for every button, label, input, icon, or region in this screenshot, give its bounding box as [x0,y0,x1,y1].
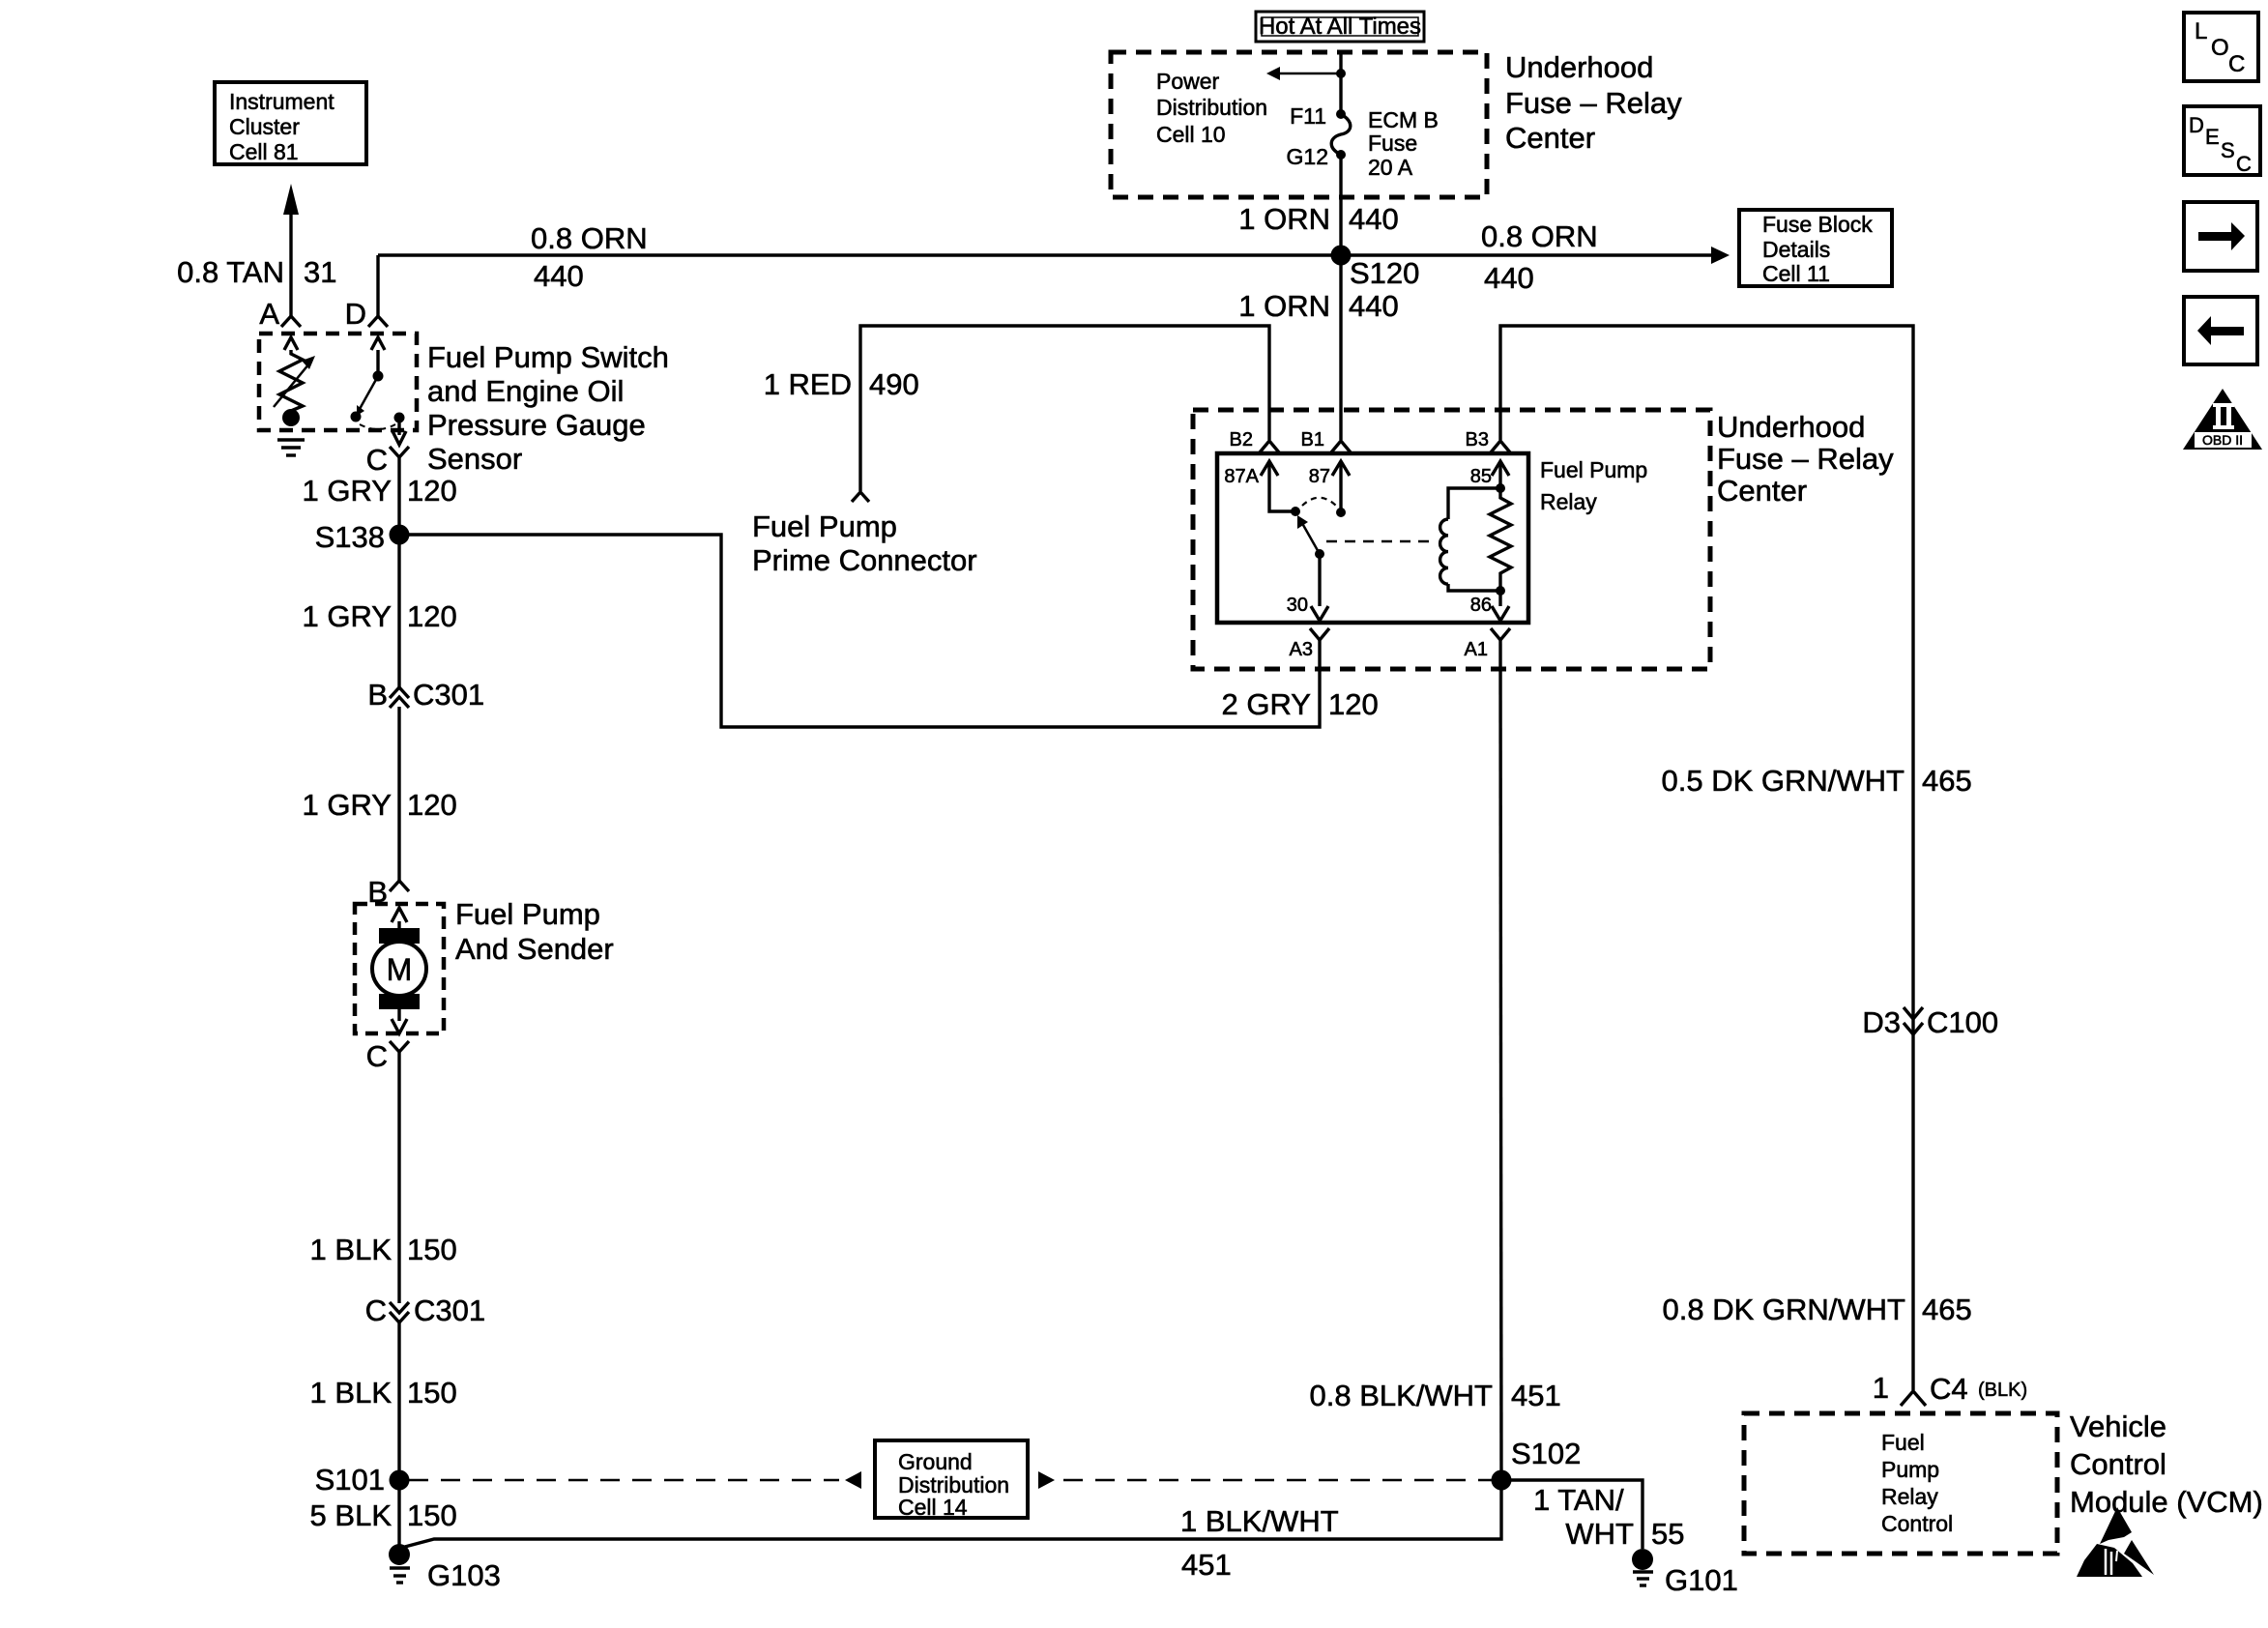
svg-text:C: C [365,1294,387,1327]
svg-text:Ground: Ground [898,1449,973,1474]
splice S120 [1331,246,1420,291]
svg-text:86: 86 [1470,595,1492,616]
svg-text:1 BLK: 1 BLK [310,1376,393,1410]
svg-text:Instrument: Instrument [229,89,334,114]
svg-text:Cell 81: Cell 81 [229,139,299,164]
svg-text:0.5 DK GRN/WHT: 0.5 DK GRN/WHT [1662,764,1905,798]
forward arrow icon [2184,202,2257,271]
wire S138 to C301 [397,535,400,687]
svg-text:31: 31 [304,255,336,289]
svg-text:85: 85 [1470,466,1492,487]
label Fuel Pump Relay [1540,457,1647,514]
label 1 BLK 150 [310,1233,457,1266]
junction to power distribution [1336,69,1346,78]
pin C connector (switch box) [366,443,409,477]
wire pump to C301 [397,1052,400,1303]
svg-text:30: 30 [1287,595,1308,616]
svg-text:C301: C301 [414,1294,485,1327]
ESD sensitive symbol [2077,1507,2154,1577]
wire A3 to S138 (2 GRY 120) [399,535,1320,727]
svg-text:Hot At All Times: Hot At All Times [1259,14,1421,40]
svg-text:O: O [2211,35,2229,61]
svg-text:2 GRY: 2 GRY [1222,687,1311,721]
svg-text:S101: S101 [315,1463,385,1497]
label Vehicle Control Module (VCM) [2070,1410,2263,1519]
svg-text:Fuel Pump Switch: Fuel Pump Switch [427,340,669,374]
label Power Distribution Cell 10 [1156,69,1267,147]
relay coil [1440,488,1500,591]
ground (sender) [277,440,305,455]
arrow to power distribution [1266,67,1341,80]
label 1 ORN 440 (below S120) [1238,289,1398,323]
svg-text:Power: Power [1156,69,1220,94]
fuel pump switch / oil pressure sensor dashed box [259,334,417,430]
svg-text:1 RED: 1 RED [764,367,852,401]
svg-text:C: C [366,443,388,477]
splice S101 [315,1463,410,1497]
svg-text:G103: G103 [427,1558,501,1592]
svg-text:1 BLK: 1 BLK [310,1233,393,1266]
label ECM B Fuse 20 A [1368,107,1439,180]
svg-text:20 A: 20 A [1368,155,1413,180]
label 0.5 DK GRN/WHT 465 [1662,764,1972,798]
svg-text:Sensor: Sensor [427,442,522,476]
label 1 RED 490 [764,367,919,401]
pin A1 connector [1465,628,1510,660]
svg-text:C: C [366,1039,388,1073]
svg-text:WHT: WHT [1565,1517,1634,1551]
svg-text:5 BLK: 5 BLK [310,1498,393,1532]
wire S102 to G101 (1 TAN/WHT 55) [1501,1480,1643,1549]
svg-text:Fuse – Relay: Fuse – Relay [1717,442,1894,476]
svg-text:Module (VCM): Module (VCM) [2070,1485,2263,1519]
wire C301 to G103 [397,1322,400,1547]
label Underhood Fuse-Relay Center (relay) [1717,410,1894,508]
svg-text:Cell 11: Cell 11 [1762,261,1830,286]
svg-text:G101: G101 [1665,1563,1738,1597]
svg-text:OBD II: OBD II [2202,432,2243,448]
svg-text:And Sender: And Sender [455,932,614,966]
relay switch blade [1297,498,1337,559]
pin B connector (pump) [367,875,409,909]
svg-text:465: 465 [1922,1293,1972,1326]
svg-text:Underhood: Underhood [1717,410,1865,444]
label 1 GRY 120 [303,474,457,508]
label Fuel Pump Prime Connector [752,509,977,577]
svg-text:Center: Center [1505,121,1595,155]
relay coil resistor [1490,492,1511,587]
label Fuel Pump Switch and Engine Oil Pressure Gauge Sensor [427,340,669,476]
connector C C301 [365,1294,486,1327]
back arrow icon [2184,297,2257,364]
arrow to fuse block details [1711,247,1730,264]
svg-text:C301: C301 [413,678,484,712]
svg-text:Fuse – Relay: Fuse – Relay [1505,86,1682,120]
pin B2 connector [1230,429,1279,452]
svg-text:B1: B1 [1301,429,1324,451]
label 0.8 TAN 31 [177,255,336,289]
pin B3 connector [1466,429,1510,452]
svg-text:1 ORN: 1 ORN [1238,202,1330,236]
dashed ground distribution wire (right) [1063,1479,1492,1482]
svg-text:D3: D3 [1862,1005,1901,1039]
svg-text:1 BLK/WHT: 1 BLK/WHT [1180,1504,1339,1538]
svg-text:A1: A1 [1465,639,1488,660]
svg-text:0.8 BLK/WHT: 0.8 BLK/WHT [1310,1379,1494,1412]
svg-text:D: D [345,297,366,331]
svg-text:Control: Control [1881,1511,1953,1536]
svg-text:Underhood: Underhood [1505,50,1653,84]
svg-text:87: 87 [1309,466,1330,487]
underhood fuse-relay center dashed box (power dist) [1111,52,1487,197]
VCM dashed box [1744,1413,2057,1554]
Fuse Block Details Cell 11 box [1739,210,1892,286]
dashed ground distribution wire (left) [409,1479,839,1482]
svg-text:D: D [2189,113,2204,137]
pin A connector [259,297,301,331]
svg-text:S102: S102 [1511,1437,1581,1470]
underhood fuse-relay center dashed box (relay) [1193,410,1710,669]
label 1 BLK/WHT 451 [1180,1504,1339,1582]
svg-text:87A: 87A [1224,466,1259,487]
svg-text:Relay: Relay [1881,1484,1938,1509]
Hot At All Times box [1256,12,1424,42]
label Fuel Pump Relay Control [1881,1430,1953,1536]
svg-text:1: 1 [1873,1371,1889,1405]
Instrument Cluster Cell 81 box [215,82,366,164]
ground G103 [389,1544,501,1592]
svg-text:Pump: Pump [1881,1457,1939,1482]
svg-text:C: C [2236,152,2252,176]
wire relay 85 to VCM C4 (465) [1500,326,1913,1390]
relay pin 85 [1470,461,1509,493]
label 0.8 ORN 440 (left) [531,221,648,293]
svg-text:(BLK): (BLK) [1978,1380,2027,1401]
splice S138 [315,520,410,554]
svg-text:Prime Connector: Prime Connector [752,543,977,577]
relay pin 86 [1470,586,1509,621]
svg-text:Fuse: Fuse [1368,131,1417,156]
svg-text:0.8 ORN: 0.8 ORN [1481,219,1598,253]
pin D connector [345,297,388,331]
label 0.8 ORN 440 (right) [1481,219,1598,295]
arrow from ground distribution (right) [1038,1471,1055,1489]
svg-text:451: 451 [1511,1379,1561,1412]
svg-text:1 TAN/: 1 TAN/ [1533,1483,1624,1517]
wire fuse to S120 to relay 87 [1339,155,1342,440]
wire G103 to S102 corner (1 BLK/WHT 451) [401,1480,1501,1548]
svg-text:120: 120 [1328,687,1379,721]
svg-text:490: 490 [869,367,919,401]
arrow to ground distribution (left) [845,1471,861,1489]
label 0.8 BLK/WHT 451 [1310,1379,1561,1412]
svg-text:S138: S138 [315,520,385,554]
svg-text:Control: Control [2070,1447,2166,1481]
fuel pump and sender dashed box [355,904,444,1033]
svg-text:C4: C4 [1930,1372,1968,1406]
svg-text:150: 150 [407,1376,457,1410]
svg-text:G12: G12 [1287,144,1328,169]
sender ground contact dot [282,409,300,426]
svg-text:465: 465 [1922,764,1972,798]
svg-text:Cell 10: Cell 10 [1156,122,1226,147]
fuel pump prime connector terminal [852,492,869,502]
svg-text:Fuel: Fuel [1881,1430,1925,1455]
svg-text:451: 451 [1181,1548,1232,1582]
fuse ECM B 20 A [1331,109,1351,160]
svg-text:Center: Center [1717,474,1807,508]
svg-text:and Engine Oil: and Engine Oil [427,374,624,408]
svg-text:1 GRY: 1 GRY [303,474,392,508]
svg-text:Details: Details [1762,237,1830,262]
svg-text:S120: S120 [1350,256,1419,290]
label 5 BLK 150 [310,1498,457,1532]
oil pressure switch [351,337,407,445]
svg-text:ECM B: ECM B [1368,107,1439,132]
wire D up to ORN bus [376,255,379,316]
label 1 GRY 120 [303,599,457,633]
svg-text:150: 150 [407,1498,457,1532]
svg-text:0.8 ORN: 0.8 ORN [531,221,648,255]
Ground Distribution Cell 14 box [875,1440,1028,1520]
arrow to instrument cluster [283,184,299,316]
svg-text:Pressure Gauge: Pressure Gauge [427,408,646,442]
label 1 GRY 120 [303,788,457,822]
svg-text:440: 440 [1484,261,1534,295]
fuel pump relay box [1217,453,1528,623]
splice S102 [1492,1437,1582,1491]
wire C301 to pump [397,707,400,881]
svg-text:Cluster: Cluster [229,114,300,139]
relay pin 87 [1309,461,1350,517]
wire hot to fuse [1339,54,1342,116]
wire C to S138 [397,457,400,535]
label 1 BLK 150 [310,1376,457,1410]
svg-text:440: 440 [1349,289,1399,323]
label 1 TAN/ WHT 55 [1533,1483,1684,1551]
label Fuel Pump And Sender [455,897,614,966]
connector B C301 [367,678,484,712]
label 2 GRY 120 [1222,687,1379,721]
svg-text:E: E [2205,125,2220,149]
svg-text:Fuel Pump: Fuel Pump [752,509,897,543]
svg-text:0.8 DK GRN/WHT: 0.8 DK GRN/WHT [1663,1293,1906,1326]
svg-text:A3: A3 [1290,639,1313,660]
svg-text:B3: B3 [1466,429,1489,451]
svg-text:1 GRY: 1 GRY [303,599,392,633]
LOC icon [2184,13,2258,81]
svg-text:120: 120 [407,788,457,822]
svg-text:Fuse Block: Fuse Block [1762,212,1873,237]
svg-text:0.8 TAN: 0.8 TAN [177,255,284,289]
svg-text:55: 55 [1651,1517,1684,1551]
sender rheostat (variable resistor) [274,337,315,411]
connector D3 C100 [1862,1005,1998,1039]
svg-text:440: 440 [1349,202,1399,236]
svg-text:1 GRY: 1 GRY [303,788,392,822]
relay pin 30 [1287,554,1328,621]
svg-text:C: C [2228,51,2245,77]
svg-text:S: S [2221,138,2235,162]
label 1 ORN 440 (above S120) [1238,202,1398,236]
svg-text:F11: F11 [1290,103,1326,129]
relay coil link dashed [1326,540,1431,543]
wire 1 RED 490 prime connector riser [860,326,1269,491]
svg-text:L: L [2195,18,2207,44]
DESC icon [2184,106,2260,176]
pin 1 C4 (BLK) connector [1873,1371,2027,1406]
svg-text:120: 120 [407,599,457,633]
svg-text:Fuel Pump: Fuel Pump [455,897,600,931]
svg-text:150: 150 [407,1233,457,1266]
pin B1 connector [1301,429,1351,452]
svg-text:Cell 14: Cell 14 [898,1495,968,1520]
OBD II icon [2183,389,2262,450]
svg-text:B: B [367,678,388,712]
svg-text:120: 120 [407,474,457,508]
wire A1 to S102 (451) [1500,640,1501,1485]
relay pin 87A [1224,461,1300,516]
pin A3 connector [1290,628,1329,660]
pin C connector (pump) [366,1039,409,1073]
ORN 440 bus wire [378,253,1712,256]
svg-text:Distribution: Distribution [1156,95,1267,120]
svg-text:Relay: Relay [1540,489,1597,514]
fuel pump motor M [372,908,426,1033]
svg-text:A: A [259,297,279,331]
svg-text:M: M [387,952,413,987]
label Underhood Fuse-Relay Center (top) [1505,50,1682,155]
svg-text:440: 440 [534,259,584,293]
svg-text:C100: C100 [1927,1005,1998,1039]
svg-text:Fuel Pump: Fuel Pump [1540,457,1647,482]
svg-text:Vehicle: Vehicle [2070,1410,2166,1443]
svg-text:1 ORN: 1 ORN [1238,289,1330,323]
svg-text:B2: B2 [1230,429,1253,451]
ground G101 [1632,1549,1738,1597]
label 0.8 DK GRN/WHT 465 [1663,1293,1972,1326]
